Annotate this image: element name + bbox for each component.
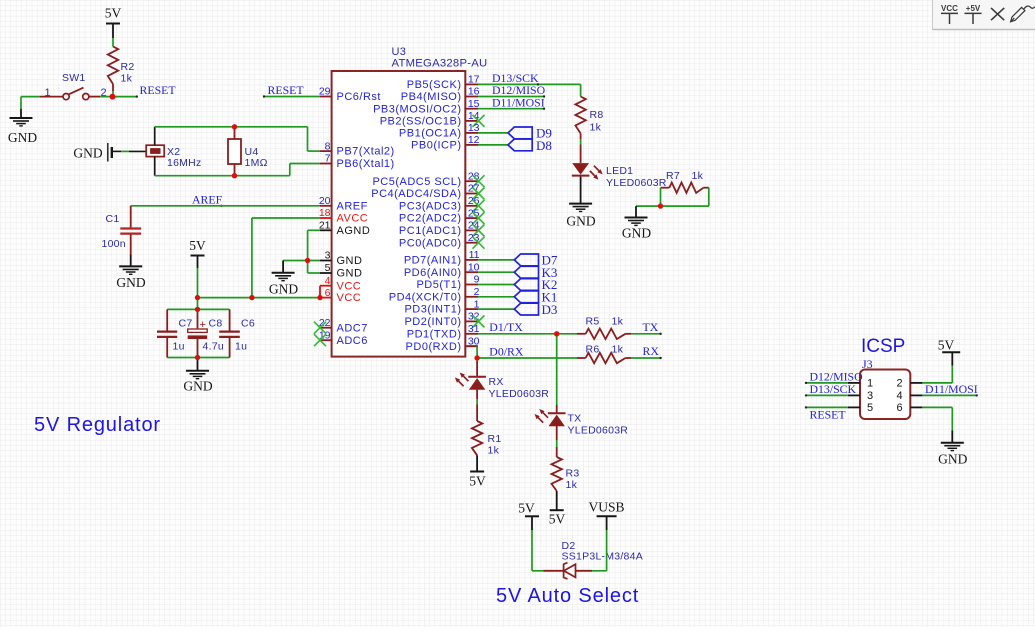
svg-text:D1/TX: D1/TX [489,320,523,334]
pin 10 PD6(AIN0) [465,271,478,273]
no-connect pin 14 [473,115,485,127]
svg-text:GND: GND [8,130,37,145]
svg-text:R5: R5 [586,316,600,328]
svg-text:13: 13 [468,122,480,134]
pin 29 PC6/Rst [320,96,332,98]
junction [195,355,200,360]
svg-text:PB2(SS/OC1B): PB2(SS/OC1B) [380,116,462,128]
svg-text:PB7(Xtal2): PB7(Xtal2) [337,146,395,158]
wire D13/SCK [478,83,581,85]
capacitor C7 [166,309,168,330]
wire TX out [631,333,661,335]
svg-text:GND: GND [337,255,363,267]
junction [195,307,200,312]
svg-text:1u: 1u [173,341,185,353]
svg-text:PB3(MOSI/OC2): PB3(MOSI/OC2) [373,103,461,115]
no-connect pin 26 [473,200,485,212]
wire [556,334,558,405]
svg-text:5V: 5V [469,474,486,489]
svg-text:YLED0603R: YLED0603R [489,388,550,400]
pin 7 PB6(Xtal1) [320,163,332,165]
svg-text:PC1(ADC1): PC1(ADC1) [399,225,462,237]
J3 pins 1/2 [848,382,860,384]
wire [580,84,582,96]
power 5V (R1) [470,471,484,473]
svg-text:PC4(ADC4/SDA): PC4(ADC4/SDA) [371,188,461,200]
crystal X2 [146,145,164,156]
pin 18 AVCC [320,217,332,219]
wire pin30 bend [465,345,477,347]
svg-text:GND: GND [566,214,595,229]
junction [195,295,200,300]
svg-text:6: 6 [896,402,902,414]
wire RX out [631,357,661,359]
wire crystal bottom [155,175,290,177]
svg-text:R8: R8 [590,109,604,121]
pin 23 PC0(ADC0) [465,242,478,244]
svg-text:+5V: +5V [966,4,981,13]
pin 15 PB3(MOSI/OC2) [465,108,478,110]
wire [154,127,156,145]
svg-text:5V: 5V [189,238,206,253]
wire J3 pin4 [922,394,976,396]
svg-text:GND: GND [73,146,102,161]
svg-text:16MHz: 16MHz [167,157,202,169]
svg-text:GND: GND [183,379,212,394]
svg-text:4: 4 [325,275,331,287]
port K3 [514,266,538,278]
pin 8 PB7(Xtal2) [320,150,332,152]
no-connect pin 22 [314,322,326,334]
svg-text:R7: R7 [666,170,680,182]
svg-text:2: 2 [896,378,902,390]
svg-text:4.7u: 4.7u [203,341,224,353]
wire GND pins [283,260,320,262]
svg-text:R3: R3 [566,468,580,480]
port D8 [508,139,532,151]
wire [112,38,114,47]
svg-text:PD3(INT1): PD3(INT1) [404,304,461,316]
wire [282,261,284,273]
wire J3 pin3 [806,394,848,396]
svg-text:1k: 1k [612,344,624,356]
wire to D9 [478,132,508,134]
svg-text:RX: RX [643,344,660,358]
svg-text:GND: GND [269,282,298,297]
svg-text:1: 1 [867,378,873,390]
svg-text:VCC: VCC [337,280,362,292]
svg-text:PB4(MISO): PB4(MISO) [401,91,462,103]
pin 5 GND [320,272,332,274]
port D9 [508,127,532,139]
no-connect pin 24 [473,224,485,236]
svg-text:21: 21 [319,220,331,232]
svg-text:AGND: AGND [337,225,371,237]
pin 25 PC2(ADC2) [465,217,478,219]
junction [305,258,310,263]
svg-text:VCC: VCC [337,292,362,304]
junction [232,124,237,129]
svg-text:5V: 5V [518,501,535,516]
port D3 [514,303,538,315]
wire D11/MOSI [478,108,544,110]
svg-text:YLED0603R: YLED0603R [606,177,667,189]
svg-text:5V: 5V [549,512,566,527]
wire AVCC riser [251,218,253,298]
resistor R3 [552,457,562,491]
pin 22 ADC7 [320,327,332,329]
svg-text:RESET: RESET [140,83,177,97]
svg-text:C8: C8 [209,318,223,330]
svg-text:18: 18 [319,207,331,219]
wire [580,133,582,139]
svg-text:VUSB: VUSB [588,500,624,515]
wire [130,255,132,267]
svg-text:D8: D8 [536,138,552,153]
pin 13 PB1(OC1A) [465,132,478,134]
wire AREF [131,205,320,207]
junction [554,331,559,336]
pin 32 PD2(INT0) [465,320,478,322]
svg-text:C6: C6 [241,318,255,330]
wire [556,425,558,440]
svg-text:PB1(OC1A): PB1(OC1A) [399,128,462,140]
IC U3 ATMEGA328P-AU body [332,71,466,357]
toolbar panel [933,0,1035,30]
wire J3 pin6 to GND [922,406,952,408]
junction [658,203,663,208]
pin 20 AREF [320,205,332,207]
svg-text:5V Auto Select: 5V Auto Select [496,585,639,607]
svg-text:U3: U3 [392,46,407,58]
port D7 [514,254,538,266]
svg-text:SS1P3L-M3/84A: SS1P3L-M3/84A [562,551,643,563]
svg-text:ADC7: ADC7 [337,322,368,334]
pin 14 PB2(SS/OC1B) [465,120,478,122]
svg-text:PD5(T1): PD5(T1) [416,279,461,291]
svg-text:5V: 5V [938,337,955,352]
pin 1 PD3(INT1) [465,308,478,310]
power 5V (ICSP) [942,351,960,353]
svg-text:17: 17 [468,74,480,86]
wire [635,206,637,217]
wire RESET to pin29 [264,96,320,98]
svg-text:RESET: RESET [268,83,305,97]
pin 3 GND [320,260,332,262]
wire to D3 [478,308,514,310]
svg-text:PC3(ADC3): PC3(ADC3) [399,200,462,212]
resistor R1 [472,421,482,455]
svg-text:VCC: VCC [941,4,958,13]
svg-text:5V Regulator: 5V Regulator [34,414,161,436]
svg-text:PC5(ADC5 SCL): PC5(ADC5 SCL) [372,176,461,188]
svg-text:PD7(AIN1): PD7(AIN1) [404,255,462,267]
wire D1/TX [478,333,577,335]
pin 12 PB0(ICP) [465,144,478,146]
wire [21,96,40,98]
svg-text:D11/MOSI: D11/MOSI [925,382,978,396]
svg-text:R2: R2 [121,61,135,73]
wire [556,491,558,510]
resistor R2 [108,47,118,85]
svg-text:1MΩ: 1MΩ [245,157,268,169]
svg-text:PB6(Xtal1): PB6(Xtal1) [337,158,395,170]
power 5V (R3) [550,509,564,511]
resistor R8 [575,97,585,134]
svg-text:5: 5 [325,262,331,274]
svg-text:C7: C7 [179,318,193,330]
J3 pins 3/4 [848,394,860,396]
svg-text:PD6(AIN0): PD6(AIN0) [404,267,462,279]
pin 21 AGND [320,229,332,231]
svg-text:6: 6 [325,287,331,299]
wire J3 pin1 [806,382,848,384]
svg-text:5V: 5V [105,5,122,20]
svg-text:16: 16 [468,86,480,98]
junction [249,295,254,300]
svg-text:TX: TX [568,413,582,425]
wire [476,358,478,361]
pin 9 PD5(T1) [465,284,478,286]
svg-text:PC2(ADC2): PC2(ADC2) [399,213,462,225]
ground (LED1) [569,204,592,212]
pin 26 PC3(ADC3) [465,205,478,207]
wire [592,570,607,572]
wire [476,389,478,399]
svg-text:20: 20 [319,195,331,207]
svg-text:AREF: AREF [192,193,223,207]
svg-text:1u: 1u [235,341,247,353]
wire [580,177,582,204]
svg-text:YLED0603R: YLED0603R [568,425,629,437]
svg-text:3: 3 [325,250,331,262]
ground (ICSP) [941,443,964,451]
resistor U4 [234,127,236,139]
no-connect pin 23 [473,237,485,249]
junction [317,295,322,300]
wire [197,358,199,371]
port K1 [514,291,538,303]
svg-text:LED1: LED1 [606,165,633,177]
wire to K1 [478,296,514,298]
wire to K3 [478,271,514,273]
toolbar icon pen [1011,6,1035,22]
svg-text:4: 4 [896,390,902,402]
port K2 [514,279,538,291]
svg-text:D0/RX: D0/RX [489,344,524,358]
ground (switch) [10,118,33,126]
pin 19 ADC6 [320,339,332,341]
svg-text:GND: GND [622,226,651,241]
svg-text:10: 10 [468,261,480,273]
no-connect pin 19 [314,334,326,346]
svg-text:D3: D3 [542,302,558,317]
pin 16 PB4(MISO) [465,96,478,98]
svg-text:12: 12 [468,134,480,146]
wire VCC bend [319,286,321,298]
svg-text:RESET: RESET [810,408,847,422]
wire to D7 [478,259,514,261]
ground (caps) [186,371,209,379]
svg-text:D11/MOSI: D11/MOSI [492,95,545,109]
wire [112,84,114,91]
capacitor C6 [229,309,231,330]
capacitor C1 [130,206,132,228]
junction [110,94,116,100]
svg-text:1k: 1k [590,122,602,134]
pin 4 VCC [320,285,332,287]
svg-text:7: 7 [325,153,331,165]
pin 17 PB5(SCK) [465,83,478,85]
svg-text:PB5(SCK): PB5(SCK) [407,79,462,91]
svg-text:GND: GND [938,452,967,467]
wire to D8 [478,144,508,146]
svg-text:29: 29 [319,86,331,98]
pin 11 PD7(AIN1) [465,259,478,261]
svg-text:15: 15 [468,98,480,110]
svg-text:3: 3 [867,390,873,402]
LED TX [548,412,566,414]
wire R7 loop [660,188,662,206]
svg-text:PD0(RXD): PD0(RXD) [406,341,462,353]
pin 2 PD4(XCK/T0) [465,296,478,298]
pin 30 PD0(RXD) [465,345,478,347]
svg-text:TX: TX [643,320,659,334]
svg-text:ATMEGA328P-AU: ATMEGA328P-AU [392,58,488,70]
pin 27 PC4(ADC4/SDA) [465,193,478,195]
wire to K2 [478,284,514,286]
ground (R7) [625,218,648,226]
svg-text:5: 5 [867,402,873,414]
wire [531,530,533,571]
capacitor C8 (polarized) [197,309,199,328]
no-connect pin 28 [473,175,485,187]
svg-text:D13/SCK: D13/SCK [810,382,857,396]
svg-text:100n: 100n [102,238,126,250]
LED RX [468,376,486,378]
svg-text:R1: R1 [488,433,502,445]
wire caps bottom [167,357,229,359]
ground (AGND) [272,273,295,281]
svg-text:SW1: SW1 [62,72,86,84]
svg-text:PD4(XCK/T0): PD4(XCK/T0) [389,291,462,303]
svg-text:GND: GND [116,275,145,290]
svg-text:1k: 1k [692,170,704,182]
wire [100,96,110,98]
J3 pins 5/6 [848,406,860,408]
wire AGND loop [308,229,320,231]
wire caps top [167,308,229,310]
svg-text:PC6/Rst: PC6/Rst [337,91,381,103]
no-connect pin 32 [473,315,485,327]
pin 24 PC1(ADC1) [465,229,478,231]
svg-text:ADC6: ADC6 [337,335,368,347]
no-connect pin 27 [473,188,485,200]
svg-text:PD2(INT0): PD2(INT0) [404,316,461,328]
wire D0/RX [477,357,577,359]
junction [232,173,237,178]
svg-text:1k: 1k [612,316,624,328]
pin 6 VCC [320,297,332,299]
wire RESET net [115,96,137,98]
svg-text:PD1(TXD): PD1(TXD) [407,328,462,340]
svg-text:31: 31 [468,323,480,335]
svg-text:1k: 1k [566,479,578,491]
svg-text:RX: RX [489,376,504,388]
wire J3 pin2 to 5V [922,382,952,384]
ground (C1) [119,266,142,274]
wire [476,455,478,471]
svg-text:PB0(ICP): PB0(ICP) [411,140,461,152]
svg-text:1k: 1k [488,445,500,457]
wire crystal top [155,126,308,128]
wire J3 pin5 [806,406,848,408]
LED LED1 [572,163,589,175]
svg-text:AREF: AREF [337,200,368,212]
wire D12/MISO [478,96,544,98]
no-connect pin 25 [473,212,485,224]
svg-text:ICSP: ICSP [861,336,905,357]
wire [197,268,199,298]
wire 5V rail [198,297,321,299]
svg-text:GND: GND [337,268,363,280]
pin 31 PD1(TXD) [465,333,478,335]
pin 28 PC5(ADC5 SCL) [465,180,478,182]
wire [121,150,129,152]
svg-text:PC0(ADC0): PC0(ADC0) [399,237,462,249]
wire caps feed [197,298,199,310]
junction [474,355,479,360]
svg-text:8: 8 [325,140,331,152]
svg-text:AVCC: AVCC [337,213,369,225]
svg-text:C1: C1 [106,213,120,225]
svg-text:1k: 1k [121,73,133,85]
svg-text:11: 11 [469,249,480,261]
toolbar icon X (no-connect) [991,8,1004,20]
